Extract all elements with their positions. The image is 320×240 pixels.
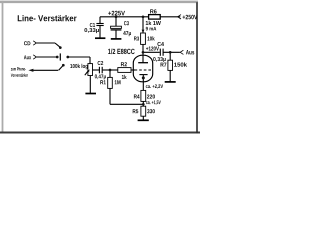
capacitor C1	[99, 17, 101, 23]
tube U1 envelope	[133, 55, 152, 82]
label R4	[134, 95, 140, 99]
label C2	[98, 61, 104, 65]
label C3	[124, 21, 129, 25]
label zum Phono	[11, 67, 26, 70]
wire Aux input	[33, 55, 36, 59]
label R3	[134, 36, 139, 40]
frame top	[0, 1, 198, 4]
resistor R4 220	[141, 90, 146, 101]
wire phono switch throw	[59, 65, 64, 70]
label 100k log	[70, 64, 87, 69]
value 0,33u C4	[153, 57, 165, 62]
arrowhead pot wiper	[87, 69, 89, 72]
value 150k	[174, 62, 187, 66]
label Vorverstärker	[11, 73, 28, 76]
label tube 1/2 E88CC	[108, 48, 134, 54]
anode	[142, 52, 144, 62]
label R6	[150, 9, 156, 13]
wire CD switch throw	[55, 43, 60, 47]
current arrow 9 mA	[142, 30, 145, 34]
label ca +1,5V	[146, 101, 161, 105]
value 330	[147, 109, 155, 113]
node: anode	[142, 51, 145, 54]
label Aus	[186, 50, 194, 54]
label C4	[157, 42, 164, 46]
capacitor C4	[159, 49, 161, 56]
node: rail R3	[142, 15, 145, 18]
wire switch to pot	[68, 56, 90, 58]
label R1	[100, 80, 106, 84]
wire phono output	[33, 69, 58, 71]
wire C2 to grid node	[103, 69, 118, 71]
node: R4 R5 junction	[142, 103, 145, 106]
node: output	[169, 51, 172, 54]
value 0,47u	[95, 74, 106, 79]
label Aux	[24, 55, 31, 59]
ground C3	[111, 38, 122, 40]
wire anode to C4	[143, 51, 160, 53]
label +225V	[108, 11, 125, 16]
value 10k	[147, 36, 154, 40]
value 0,33u C1	[84, 28, 98, 33]
node: phono contact	[62, 64, 65, 67]
value 1k	[122, 75, 127, 79]
value 47u	[123, 31, 131, 36]
title	[18, 15, 77, 21]
ground R5	[138, 119, 149, 121]
node: rail C3	[115, 15, 118, 18]
value 1M	[115, 80, 121, 84]
value 220	[147, 94, 155, 98]
node: Aux contact	[56, 56, 59, 59]
wire R2 to grid	[131, 69, 135, 71]
label CD	[24, 41, 30, 45]
capacitor C2	[98, 67, 100, 74]
label R5	[133, 109, 139, 113]
node: cathode	[142, 76, 145, 79]
resistor R6 rail	[149, 15, 161, 20]
ground pot	[85, 93, 96, 95]
node: wiper pivot	[66, 56, 69, 59]
frame left	[2, 1, 4, 133]
frame bottom	[0, 132, 200, 134]
resistor R5 330	[141, 106, 146, 116]
wire C4 to output	[164, 51, 180, 53]
frame right	[196, 2, 198, 133]
label R7	[161, 63, 167, 67]
node: CD contact	[59, 46, 62, 49]
value 9 mA	[146, 27, 157, 31]
label +250V	[183, 15, 198, 19]
switch S1 wiper bar	[59, 53, 61, 60]
ground R7	[165, 81, 176, 83]
resistor R7 150k	[168, 60, 173, 70]
node: grid junction	[109, 69, 112, 72]
resistor R3 10k	[141, 33, 146, 44]
wire pot bottom	[89, 76, 91, 94]
wire R1 to cathode divider	[109, 88, 111, 104]
capacitor C3 47u electrolytic	[115, 17, 117, 26]
terminal Aus	[180, 50, 183, 54]
label ca +2,2V	[146, 84, 163, 88]
wire CD input	[33, 41, 36, 45]
resistor R2 1k	[118, 68, 131, 73]
label C1	[90, 23, 95, 27]
grid	[135, 69, 151, 71]
cathode	[139, 74, 147, 76]
wire pot wiper to C2	[93, 69, 100, 71]
label R2	[121, 62, 127, 66]
terminal +250V	[178, 15, 181, 19]
resistor R1 1M	[108, 77, 113, 88]
label +120V	[146, 46, 159, 50]
supply rail	[100, 16, 148, 18]
potentiometer P1 100k log	[88, 64, 93, 76]
ground C1	[95, 37, 105, 39]
arrowhead phono	[28, 69, 33, 72]
value 1k 1W	[146, 21, 161, 25]
